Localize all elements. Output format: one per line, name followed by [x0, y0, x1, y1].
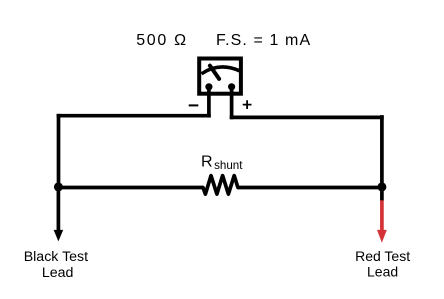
svg-text:Lead: Lead — [42, 265, 74, 281]
black test lead arrow shaft — [57, 188, 61, 232]
wire bottom right segment — [238, 186, 384, 190]
meter movement M1 box — [199, 59, 241, 94]
wire top-left horizontal — [57, 114, 211, 118]
svg-text:F.S. = 1 mA: F.S. = 1 mA — [216, 32, 311, 49]
meter terminal dot (right, +) — [228, 83, 235, 90]
svg-text:shunt: shunt — [214, 159, 243, 172]
wire top-right horizontal — [230, 116, 384, 120]
junction node dot right — [377, 182, 386, 191]
red test lead arrow shaft — [380, 200, 384, 231]
meter scale arc — [202, 67, 240, 74]
black test lead arrowhead — [54, 230, 64, 242]
svg-text:Black Test: Black Test — [24, 249, 88, 265]
resistor Rshunt zigzag — [203, 176, 238, 195]
svg-text:R: R — [201, 153, 213, 170]
svg-text:Red Test: Red Test — [355, 248, 410, 264]
red test lead arrowhead — [377, 230, 387, 243]
plus sign at meter — [243, 100, 252, 109]
svg-text:500 Ω: 500 Ω — [136, 32, 188, 49]
wire from right meter terminal down — [230, 87, 234, 119]
meter needle — [210, 66, 219, 79]
wire right vertical — [380, 115, 384, 189]
svg-text:Lead: Lead — [367, 264, 398, 280]
meter terminal dot (left, -) — [205, 83, 212, 90]
wire bottom left segment — [56, 186, 203, 190]
wire from left meter terminal down — [207, 87, 211, 118]
junction node dot left — [54, 182, 63, 191]
minus sign at meter — [189, 104, 199, 106]
wire left vertical — [57, 114, 61, 189]
black stub below right junction — [380, 188, 384, 201]
